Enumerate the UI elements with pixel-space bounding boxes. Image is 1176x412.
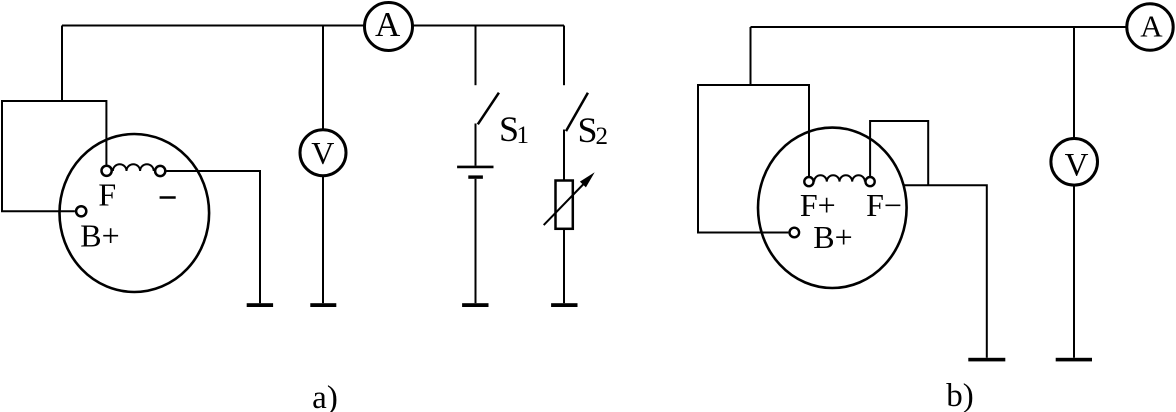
wire: voltmeter V1 branch lower (322, 176, 324, 303)
svg-text:F: F (98, 177, 116, 213)
terminal B+ (a) (76, 206, 86, 216)
ammeter A2 circle (1127, 4, 1173, 50)
battery GB long plate (457, 166, 493, 169)
ground bar under machine wire (b) (968, 358, 1005, 362)
svg-text:A: A (1140, 9, 1163, 44)
ground bar under battery (462, 303, 488, 307)
svg-text:A: A (375, 5, 401, 44)
ground bar under voltmeter V1 (310, 303, 336, 307)
wire: circuit a left feed vertical down to field loop top (61, 26, 63, 102)
wire: voltmeter V1 branch upper (322, 26, 324, 130)
wire: circuit b field loop (B+ to F+ path) (698, 85, 809, 233)
ammeter A1 circle (365, 3, 413, 51)
wire: circuit a top bus from ammeter to S2 corner (414, 25, 565, 27)
rheostat R arrow head (580, 172, 595, 187)
svg-text:F−: F− (866, 187, 902, 223)
switch S2 blade (566, 93, 588, 131)
terminal F+ (b) (804, 177, 813, 186)
voltmeter V1 circle (300, 130, 346, 176)
battery GB short plate (468, 175, 483, 178)
wire: circuit a top bus from left corner to ammeter (62, 25, 364, 27)
svg-text:B+: B+ (813, 219, 852, 255)
terminal minus (a) (155, 166, 165, 176)
machine circle M1 (generator a) (60, 134, 210, 292)
voltmeter V2 circle (1051, 139, 1098, 186)
wire: circuit b left feed vertical (750, 27, 752, 85)
svg-text:F+: F+ (800, 187, 836, 223)
ground bar under minus wire (a) (247, 303, 273, 307)
rheostat R body (556, 181, 573, 229)
wire: from machine rim right then down to ground (b) (903, 185, 987, 357)
rheostat R arrow shaft (544, 182, 586, 226)
field coil L1 (a) (113, 164, 154, 171)
svg-text:a): a) (312, 380, 338, 412)
label minus dash (a) (160, 196, 176, 199)
wire: circuit a field loop (B+ to F path) (2, 101, 106, 211)
wire: S2 branch from top bus corner down to switch contact (563, 26, 565, 86)
svg-text:S2: S2 (578, 110, 609, 150)
svg-text:B+: B+ (80, 218, 119, 254)
terminal F (a) (102, 166, 112, 176)
wire: S2 blade to rheostat (563, 130, 565, 181)
terminal B+ (b) (790, 228, 800, 238)
field coil L2 (b) (814, 175, 865, 181)
machine circle M2 (generator b) (758, 128, 907, 288)
wire: S1 blade to battery (475, 124, 477, 166)
svg-text:b): b) (946, 378, 974, 412)
wire: battery to ground bar (475, 179, 477, 303)
svg-text:S1: S1 (499, 109, 529, 149)
ground bar under voltmeter V2 (1056, 358, 1092, 362)
wire: voltmeter V2 branch lower (1073, 186, 1075, 358)
wire: rheostat to ground bar (563, 229, 565, 303)
wire: S1 branch from top bus down to switch contact (475, 26, 477, 86)
svg-text:V: V (1065, 147, 1089, 183)
ground bar under rheostat (551, 303, 577, 307)
wire: from minus terminal right then down to ground (a) (167, 171, 261, 303)
switch S1 blade (478, 93, 499, 125)
terminal F- (b) (866, 177, 875, 186)
wire: F- compensation loop (b) (870, 121, 928, 185)
svg-text:V: V (311, 135, 334, 171)
wire: circuit b top bus from left corner to ammeter (751, 26, 1127, 28)
wire: voltmeter V2 branch upper (1073, 27, 1075, 138)
